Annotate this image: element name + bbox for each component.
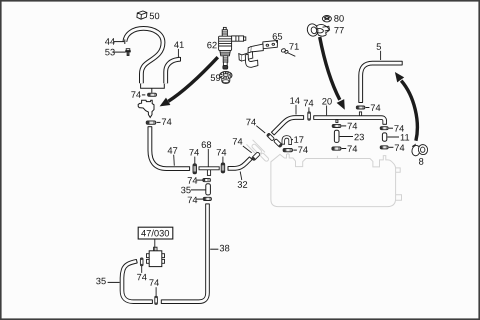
label 80 <box>334 15 344 22</box>
cylinder 11 <box>382 133 386 141</box>
engine faint diagonal rail line 1 <box>253 140 265 153</box>
label 35 b <box>96 278 119 285</box>
label 74 #4 <box>217 149 227 163</box>
label 32 <box>238 172 248 188</box>
label 35 a <box>181 187 205 194</box>
hose 47 right end cap <box>189 166 191 170</box>
label 8 <box>419 158 423 165</box>
label 74 #9 <box>188 177 203 183</box>
label 74 #12 <box>149 279 159 296</box>
grommet 59 <box>220 72 232 84</box>
hose 14 lower end cap <box>271 132 274 135</box>
hose 5 bottom end cap <box>359 102 363 104</box>
engine faint diagonal plug connector 1 <box>251 143 262 154</box>
engine cover outline <box>271 154 396 207</box>
hose 38 long L-shaped <box>161 204 207 302</box>
hose 44 question-mark shaped <box>125 28 163 83</box>
hose 47 top end cap <box>148 126 152 128</box>
fitting 74 #14 <box>332 124 341 127</box>
label 17 <box>292 136 304 142</box>
screw 71 <box>281 48 289 54</box>
clip 50 icon <box>137 11 147 19</box>
label 47 <box>168 147 178 165</box>
hose 32 curved <box>228 158 251 168</box>
label 71 <box>288 43 299 56</box>
fitting 74 #2 below valve <box>146 121 156 124</box>
label 41 <box>174 42 184 58</box>
pipe 20 top stub <box>359 112 361 117</box>
label 11 <box>387 134 409 140</box>
label 74 #6 <box>246 119 265 133</box>
tube 35 vertical cylinder <box>206 184 211 195</box>
label 74 #5 <box>233 138 252 153</box>
fitting 74 #16 <box>380 127 388 130</box>
nut 80 <box>322 16 331 22</box>
bracket joining hose 44 and 41 legs <box>141 84 165 89</box>
hose 5 right end cap <box>401 61 403 65</box>
label 74 #17 <box>389 145 405 151</box>
pipe 20 long with bend <box>314 118 385 125</box>
hose 44 left end cap <box>124 39 126 44</box>
label 74 #11 <box>137 266 147 280</box>
label box 47/030 <box>138 227 173 250</box>
engine faint diagonal plug connector 2 <box>260 152 270 162</box>
hose 14 curved <box>273 118 304 134</box>
thermo valve (T-valve) below fitting <box>138 100 154 117</box>
label 62 <box>207 42 216 49</box>
hose 5 L-shaped <box>361 63 403 102</box>
label 74 #8 <box>293 147 307 153</box>
label 44 <box>105 38 124 44</box>
fitting 74 #10 <box>203 197 211 200</box>
label 74 #1 <box>131 91 145 97</box>
engine faint diagonal rail line 2 <box>247 144 259 157</box>
hose 14 right end cap <box>303 115 305 119</box>
hose 35 big C-shaped <box>122 261 152 302</box>
arrow from clamp 8 to hose 5 <box>395 72 417 141</box>
fitting 74 #4 vertical sleeve <box>221 163 225 173</box>
fitting 74 #15 <box>332 147 341 150</box>
elbow 17 end caps <box>282 143 292 145</box>
hose 41 curved <box>166 59 181 83</box>
label 5 <box>377 43 381 60</box>
fitting 74 #8 under elbow 17 <box>283 148 292 151</box>
hose 41 top end cap <box>180 57 182 61</box>
engine cover port tick at column 23 <box>336 156 338 159</box>
elbow 17 <box>283 137 290 145</box>
label 68 <box>202 141 211 166</box>
pipe 20 bottom end cap <box>383 123 387 125</box>
arrow from clamp 77 to pipe 20 <box>320 37 345 110</box>
hose 32 left end cap <box>227 166 229 170</box>
label 74 #14 <box>342 123 358 129</box>
stem from bracket to fitting <box>151 88 153 93</box>
label 74 #7 <box>304 100 314 112</box>
clamp 77 <box>306 23 330 38</box>
label 59 <box>211 74 221 81</box>
hose 47 L-shaped <box>150 127 190 169</box>
fitting 74 #13 under hose 5 <box>356 106 365 109</box>
diagonal fitting 74 on hose 32 <box>251 152 260 161</box>
small capsule 74 #7 left of pipe 20 <box>308 112 311 120</box>
cylinder 23 <box>334 130 339 142</box>
label 53 <box>105 49 125 56</box>
control unit 47/030 <box>147 247 165 266</box>
purge valve 62 <box>219 27 246 69</box>
label 77 <box>334 27 343 33</box>
label 14 <box>290 97 299 114</box>
label 74 #3 <box>189 149 199 163</box>
hose 35 right end cap <box>151 300 153 304</box>
diagonal sleeve 74 S2 <box>274 139 283 148</box>
fitting 74 #9 <box>203 179 211 182</box>
fitting 74 #3 vertical sleeve <box>193 164 197 174</box>
pipe 20 bottom stub <box>336 120 338 123</box>
bracket 65 <box>239 40 278 67</box>
hose 38 top end cap <box>205 203 209 205</box>
fitting 74 #17 <box>380 146 388 149</box>
hose 32 right end cap <box>249 157 252 160</box>
label 38 <box>210 245 229 252</box>
capsule 74 #11 left of control unit <box>140 258 143 266</box>
diagonal sleeve 74 S1 <box>266 133 274 141</box>
label 74 #2 <box>157 119 172 125</box>
label 74 #15 <box>342 146 358 152</box>
label 74 #13 <box>366 105 381 111</box>
label 23 <box>340 134 364 141</box>
hose 38 left end cap <box>160 300 162 304</box>
label 50 <box>150 13 160 20</box>
engine cover right tab upper <box>396 168 401 172</box>
T-connector 68 <box>199 167 219 176</box>
label 74 #16 <box>389 125 404 131</box>
label 20 <box>322 98 332 115</box>
label 74 #10 <box>188 197 203 203</box>
capsule 74 #12 between hose 35 and 38 <box>155 296 158 304</box>
pipe 20 left end cap <box>313 116 315 120</box>
engine cover right tab lower <box>396 195 402 201</box>
bolt 53 <box>126 49 131 56</box>
arrow from valve 62 to thermo valve <box>160 57 218 106</box>
label 65 <box>273 33 282 42</box>
clamp 8 <box>411 144 429 157</box>
hose 35 top end cap <box>136 259 137 263</box>
fitting 74 #1 below hose 44 <box>148 93 157 96</box>
